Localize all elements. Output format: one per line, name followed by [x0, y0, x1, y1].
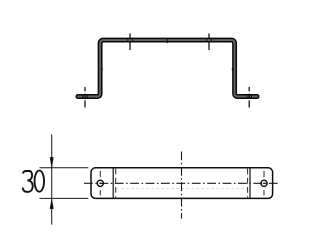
hole F (plan view right) [261, 180, 267, 186]
hole B edge ticks [207, 38, 211, 42]
hole A edge ticks [128, 38, 132, 42]
flange hole C centerline (left flange) [84, 87, 86, 108]
flange hole C edge ticks [83, 95, 87, 99]
hole F center dot [263, 182, 265, 184]
hole F centerline [263, 171, 265, 177]
flange hole D edge ticks [247, 95, 251, 99]
hole A centerline (top bar, left) [129, 33, 131, 50]
hidden edge lower (faint dashed) [117, 187, 248, 189]
extension line top [40, 167, 89, 169]
plan view outline (rounded rectangle) [91, 168, 273, 199]
right hidden leg line (dashed) [247, 169, 249, 198]
hole B centerline (top bar, right) [208, 33, 210, 50]
top bar center tick [166, 38, 168, 43]
right bend line [249, 168, 251, 197]
bracket profile (front view, hat channel) [76, 38, 259, 98]
extension line bottom [40, 197, 89, 199]
dimension line [51, 134, 53, 224]
dimension text 30: digit 3 [23, 171, 33, 192]
vertical centerline [181, 152, 183, 219]
flange hole D centerline (right flange) [248, 87, 250, 108]
left hidden leg line (dashed) [115, 169, 117, 198]
right leg mid tick [231, 68, 233, 71]
hole E centerline [99, 171, 101, 177]
arrow bottom (pointing up) [50, 198, 54, 208]
hole E center dot [99, 182, 101, 184]
hole E (plan view left) [97, 180, 103, 186]
left bend line [112, 168, 114, 197]
dimension text 30: digit 0 [35, 171, 45, 192]
horizontal centerline [84, 182, 279, 184]
left leg mid tick [101, 68, 103, 71]
arrow top (pointing down) [50, 157, 54, 167]
